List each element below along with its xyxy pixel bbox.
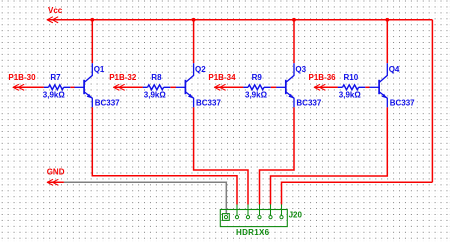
emitter arrowhead Q1 bbox=[87, 94, 92, 99]
wire resistor R10 to base of Q4 bbox=[365, 86, 369, 88]
connector pin 2 lead and circle bbox=[236, 204, 238, 215]
wire collector drop Q4 bbox=[386, 20, 388, 63]
svg-text:Q2: Q2 bbox=[195, 65, 206, 74]
wire input net P1B to resistor R9 bbox=[214, 86, 243, 88]
resistor R7 bbox=[44, 86, 49, 88]
svg-text:BC337: BC337 bbox=[95, 99, 120, 108]
wire GND red stub bbox=[47, 181, 64, 183]
svg-text:Q4: Q4 bbox=[389, 65, 400, 74]
svg-text:BC337: BC337 bbox=[390, 99, 415, 108]
wire Vcc right rail down bbox=[431, 20, 433, 183]
wire input net P1B to resistor R10 bbox=[314, 86, 338, 88]
svg-text:BC337: BC337 bbox=[196, 99, 221, 108]
svg-text:Q1: Q1 bbox=[94, 65, 105, 74]
transistor Q3 BC337 bbox=[276, 63, 294, 107]
node P1B-32 off-page connector arrow bbox=[114, 84, 120, 90]
wire input net P1B to resistor R7 bbox=[13, 86, 44, 88]
svg-text:R7: R7 bbox=[50, 73, 61, 82]
svg-text:HDR1X6: HDR1X6 bbox=[236, 228, 270, 237]
wire resistor R7 to base of Q1 bbox=[70, 86, 74, 88]
svg-text:P1B-32: P1B-32 bbox=[109, 73, 137, 82]
connector pin 1 square bbox=[223, 214, 230, 221]
node GND off-page connector arrow bbox=[47, 179, 53, 185]
svg-text:R8: R8 bbox=[151, 73, 162, 82]
svg-text:3,9kΩ: 3,9kΩ bbox=[144, 90, 167, 99]
wire collector drop Q2 bbox=[193, 20, 195, 63]
node junction on Vcc rail at Q3 bbox=[292, 18, 296, 22]
transistor Q1 BC337 bbox=[75, 63, 93, 107]
wire emitter route Q1 to header pin 2 bbox=[92, 107, 237, 204]
wire Vcc top rail bbox=[47, 19, 432, 21]
svg-text:R9: R9 bbox=[252, 73, 263, 82]
node junction on Vcc rail at Q4 bbox=[385, 18, 389, 22]
svg-text:3,9kΩ: 3,9kΩ bbox=[43, 90, 66, 99]
svg-text:J20: J20 bbox=[289, 211, 303, 220]
svg-text:P1B-34: P1B-34 bbox=[208, 73, 236, 82]
connector J20 HDR1X6 body bbox=[220, 210, 287, 227]
resistor R10 bbox=[338, 86, 343, 88]
resistor R8 bbox=[143, 86, 148, 88]
svg-text:BC337: BC337 bbox=[296, 99, 321, 108]
node P1B-36 off-page connector arrow bbox=[314, 84, 320, 90]
node junction on Vcc rail at Q2 bbox=[192, 18, 196, 22]
connector pin 4 lead and circle bbox=[259, 204, 261, 215]
svg-text:GND: GND bbox=[47, 168, 65, 177]
connector pin 5 lead and circle bbox=[270, 204, 272, 215]
transistor Q2 BC337 bbox=[176, 63, 194, 107]
wire emitter route Q4 to header pin 5 bbox=[271, 107, 388, 204]
svg-text:Q3: Q3 bbox=[295, 65, 306, 74]
wire resistor R9 to base of Q3 bbox=[271, 86, 277, 88]
wire Vcc return to header pin 6 bbox=[282, 182, 433, 204]
transistor Q4 BC337 bbox=[370, 63, 388, 107]
emitter arrowhead Q3 bbox=[288, 94, 293, 99]
wire input net P1B to resistor R8 bbox=[114, 86, 143, 88]
emitter arrowhead Q4 bbox=[382, 94, 387, 99]
svg-text:Vcc: Vcc bbox=[48, 6, 63, 15]
connector pin 3 lead and circle bbox=[247, 204, 249, 215]
wire collector drop Q1 bbox=[91, 20, 93, 63]
svg-text:P1B-36: P1B-36 bbox=[309, 73, 337, 82]
wire emitter route Q3 to header pin 4 bbox=[260, 107, 295, 204]
wire emitter route Q2 to header pin 3 bbox=[194, 107, 248, 204]
resistor R9 bbox=[243, 86, 248, 88]
emitter arrowhead Q2 bbox=[188, 94, 193, 99]
node P1B-34 off-page connector arrow bbox=[214, 84, 220, 90]
svg-text:3,9kΩ: 3,9kΩ bbox=[245, 90, 268, 99]
svg-text:R10: R10 bbox=[344, 73, 359, 82]
wire GND gray net to header pin 1 bbox=[64, 182, 226, 214]
wire resistor R8 to base of Q2 bbox=[170, 86, 176, 88]
svg-text:P1B-30: P1B-30 bbox=[8, 73, 36, 82]
svg-text:3,9kΩ: 3,9kΩ bbox=[339, 90, 362, 99]
node Vcc off-page connector arrow bbox=[47, 17, 53, 23]
node junction on Vcc rail at Q1 bbox=[90, 18, 94, 22]
node P1B-30 off-page connector arrow bbox=[13, 84, 19, 90]
wire collector drop Q3 bbox=[293, 20, 295, 63]
connector pin 6 lead and circle bbox=[281, 204, 283, 215]
